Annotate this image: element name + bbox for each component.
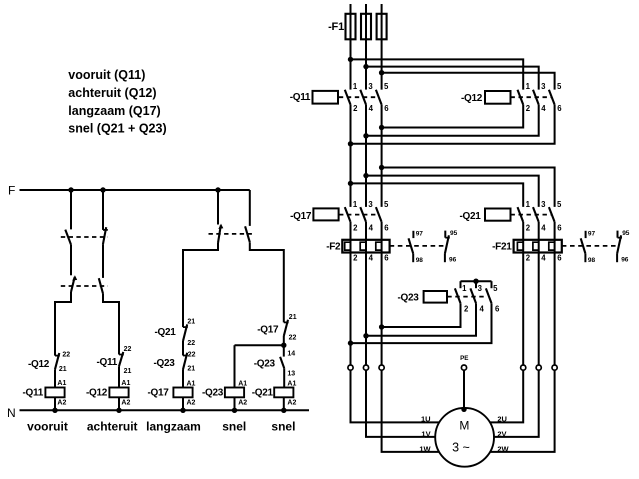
svg-text:3: 3 [541,82,546,91]
coil -Q12 power symbol [485,91,511,104]
wire L2 feed to Q12 pole 3 [366,67,539,90]
svg-text:95: 95 [450,230,458,237]
wire to coil Q21 [283,368,285,387]
svg-text:2: 2 [464,304,469,313]
svg-text:4: 4 [480,304,485,313]
junction Q23 / L1 [348,340,353,345]
junction crossover / L2 [363,133,368,138]
wire phase L1 to motor 1U [351,222,441,423]
svg-text:2: 2 [526,104,531,113]
svg-text:97: 97 [416,231,424,238]
wire coil Q11 to N [54,397,56,410]
svg-text:-Q12: -Q12 [28,359,50,370]
wire Q23 star bridge bus [461,280,492,282]
svg-text:4: 4 [541,104,546,113]
contactor -Q21 main contact 3-4 [533,207,539,222]
svg-text:A2: A2 [121,399,130,406]
wire phase L2 incoming [365,4,367,90]
wire F supply bus [20,189,250,191]
svg-text:21: 21 [187,366,195,373]
wire S2 right pole to snel branch [250,242,284,322]
svg-text:6: 6 [495,304,500,313]
mechanical link S1 row 2 [61,285,108,287]
heater -F2 pole 1 [345,242,351,250]
mechanical link -Q23 [447,296,487,298]
wire Q12 pole 4 output crossover to L2 [366,105,539,136]
svg-text:1W: 1W [419,445,431,454]
terminal L1 [348,365,353,370]
wire S1 left pole middle [70,245,72,276]
wire to coil Q17 [182,370,184,388]
wire S1 right pole middle [102,245,104,278]
svg-text:snel (Q21 + Q23): snel (Q21 + Q23) [68,122,166,136]
svg-text:22: 22 [289,334,297,341]
svg-text:A2: A2 [187,399,196,406]
fuse -F1 pole 1 [346,14,356,40]
contactor -Q17 main contact 5-6 [376,207,382,222]
switch S1 contact left (NO, vooruit) [65,230,71,245]
contact -Q12 NC interlock (21-22) [55,355,60,357]
svg-text:-Q11: -Q11 [290,92,311,103]
svg-text:N: N [7,406,16,420]
contactor -Q11 main contact 1-2 [345,90,351,105]
svg-text:snel: snel [222,420,246,434]
wire Q23 pole 2 output to L3 [382,303,461,327]
fuse -F1 pole 3 [377,14,387,40]
svg-text:2: 2 [526,223,531,232]
svg-text:98: 98 [588,257,596,264]
svg-text:5: 5 [384,82,389,91]
svg-text:-Q21: -Q21 [459,211,481,222]
svg-text:A1: A1 [121,380,130,387]
switch S1 contact left row2 (with actuating arrow) [71,277,75,292]
svg-text:22: 22 [62,351,70,358]
svg-text:-Q17: -Q17 [290,211,312,222]
svg-text:langzaam: langzaam [146,420,201,434]
mechanical link -F21 trip [562,245,616,247]
svg-text:M: M [459,419,469,433]
contact -Q17 NC interlock (21-22) [284,321,289,323]
svg-text:14: 14 [287,350,295,357]
svg-text:6: 6 [384,104,389,113]
mechanical link -Q12 [511,96,552,98]
heater -F21 pole 1 [517,242,523,250]
wire F to S1 right pole [102,190,104,230]
svg-text:-Q23: -Q23 [153,358,175,369]
svg-text:6: 6 [557,254,562,263]
svg-text:PE: PE [460,355,468,362]
svg-text:achteruit (Q12): achteruit (Q12) [68,86,156,100]
overload relay -F2 body [342,240,389,253]
contactor -Q12 main contact 1-2 [518,90,524,105]
wire coil Q23 to N [234,397,236,410]
wire S2 left pole to langzaam branch [183,243,218,327]
svg-text:4: 4 [369,223,374,232]
junction F / vooruit branch [68,187,73,192]
wire phase L2 to motor 1V [366,222,436,437]
svg-text:97: 97 [588,231,596,238]
svg-text:A2: A2 [238,399,247,406]
contactor -Q12 main contact 3-4 [533,90,539,105]
svg-text:vooruit (Q11): vooruit (Q11) [68,68,145,82]
svg-text:2: 2 [526,254,531,263]
junction L2 / Q21 feed [363,173,368,178]
terminal L2 [363,365,368,370]
svg-text:3 ~: 3 ~ [452,441,470,455]
svg-text:5: 5 [493,284,498,293]
switch S2 contact right (NO) [245,226,250,242]
wire junction to coil Q23 [234,345,236,387]
fuse -F1 pole 2 [361,14,371,40]
contactor -Q17 main contact 3-4 [360,207,366,222]
coil -Q12 (achteruit contactor) [109,388,128,398]
svg-text:4: 4 [541,254,546,263]
wire to junction [283,336,285,345]
svg-text:2: 2 [353,104,358,113]
wire coil Q17 to N [182,397,184,410]
wire Q23 pole 6 output to L1 [351,303,492,343]
heater -F2 pole 2 [360,242,366,250]
terminal PE [461,365,466,370]
svg-text:95: 95 [622,230,630,237]
junction Q23 / L2 [363,333,368,338]
svg-text:F: F [8,183,15,197]
svg-text:4: 4 [541,223,546,232]
coil -Q23 power symbol [424,291,447,303]
svg-text:1: 1 [462,284,467,293]
svg-text:-Q23: -Q23 [397,292,419,303]
junction star bus [473,279,478,284]
wire L1 feed to Q21 pole 1 [351,183,524,207]
svg-text:langzaam (Q17): langzaam (Q17) [68,104,160,118]
svg-text:96: 96 [621,257,629,264]
wire coil Q12 to N [118,397,120,410]
svg-text:21: 21 [59,366,67,373]
svg-text:6: 6 [384,254,389,263]
svg-text:-F21: -F21 [492,242,512,253]
wire coil Q21 to N [283,397,285,410]
svg-text:1V: 1V [421,430,430,439]
junction N / Q12 [116,408,121,413]
junction N / Q17 [180,408,185,413]
svg-text:96: 96 [449,257,457,264]
contactor -Q17 main contact 1-2 [345,207,351,222]
svg-text:1U: 1U [421,415,431,424]
svg-text:1: 1 [353,82,358,91]
svg-text:-Q12: -Q12 [86,388,108,399]
heater -F2 pole 3 [376,242,382,250]
coil -Q11 power symbol [313,91,339,104]
terminal 2U [521,365,526,370]
svg-text:-Q12: -Q12 [461,93,483,104]
svg-text:2: 2 [353,254,358,263]
wire F to S1 left pole [70,190,72,229]
svg-text:5: 5 [384,200,389,209]
wire to coil Q12 [118,366,120,387]
wire F corner to S2 right pole [249,190,251,226]
svg-text:-Q23: -Q23 [254,359,276,370]
svg-text:4: 4 [369,104,374,113]
svg-text:-Q11: -Q11 [97,357,118,368]
junction crossover / L1 [348,141,353,146]
svg-text:22: 22 [124,346,132,353]
svg-text:A2: A2 [287,399,296,406]
svg-text:2U: 2U [497,415,507,424]
mechanical link -F2 trip [390,245,444,247]
junction L2 / Q12 feed [363,64,368,69]
svg-text:-Q21: -Q21 [154,327,176,338]
coil -Q11 (vooruit contactor) [45,388,64,398]
junction Q23 / L3 [379,324,384,329]
svg-text:snel: snel [271,420,295,434]
wire Q21 pole 6 to motor 2W [489,222,555,452]
svg-text:6: 6 [557,104,562,113]
svg-text:13: 13 [287,370,295,377]
wire L1 feed to Q12 pole 1 [351,59,524,89]
junction snel branches [281,343,286,348]
junction L3 / Q12 feed [379,70,384,75]
wire L3 feed to Q21 pole 5 [382,168,555,207]
junction L1 / Q21 feed [348,181,353,186]
junction L1 / Q12 feed [348,57,353,62]
switch S1 contact right row2 (NO) [99,278,103,293]
mechanical link -Q11 [339,96,378,98]
svg-text:-F1: -F1 [328,21,344,33]
wire between interlocks [182,341,184,356]
heater -F21 pole 3 [549,242,555,250]
svg-text:21: 21 [187,319,195,326]
svg-text:-Q17: -Q17 [257,324,279,335]
terminal 2V [536,365,541,370]
wire Q12 pole 2 output crossover to L3 [382,105,524,128]
contact -Q21 NC interlock (21-22) [183,326,188,328]
junction F / achteruit branch [100,187,105,192]
terminal 2W [552,365,557,370]
junction N / Q11 [52,408,57,413]
coil -Q21 (snel contactor) [274,388,293,398]
svg-text:1: 1 [353,200,358,209]
svg-text:6: 6 [384,223,389,232]
svg-text:21: 21 [124,368,132,375]
wire Q12 pole 6 output crossover to L1 [351,105,555,144]
contactor -Q21 main contact 1-2 [518,207,524,222]
coil -Q21 power symbol [485,209,511,221]
contactor -Q23 main contact 5-6 [491,281,493,288]
mechanical link S2 [209,233,253,235]
svg-text:-F2: -F2 [326,242,341,253]
wire F to S2 left pole [217,190,219,225]
wire S1 left pole to Q11 branch [55,292,71,356]
wire PE to motor [463,370,465,409]
contact -Q23 NO aux (13-14) [283,345,285,356]
svg-text:A1: A1 [57,380,66,387]
switch S2 contact left (with actuating arrow) [218,225,221,243]
mechanical link -Q17 [339,214,378,216]
heater -F21 pole 2 [533,242,539,250]
wire N return bus [20,409,310,411]
wire L3 feed to Q12 pole 5 [382,73,555,90]
svg-text:2W: 2W [497,445,509,454]
svg-text:5: 5 [557,82,562,91]
svg-text:-Q11: -Q11 [23,388,44,399]
svg-text:2V: 2V [497,430,506,439]
svg-text:-Q17: -Q17 [147,388,169,399]
contactor -Q21 main contact 5-6 [549,207,555,222]
contact -Q11 NC interlock (21-22) [119,354,124,356]
svg-text:5: 5 [557,200,562,209]
switch S1 contact right (NC, achteruit) [103,229,108,231]
wire Q21 pole 4 to motor 2V [494,222,539,437]
junction N / Q21 [281,408,286,413]
junction N / Q23 [232,408,237,413]
junction crossover / L3 [379,125,384,130]
svg-text:1: 1 [526,82,531,91]
wire phase L3 riser Q11-Q17 [381,105,383,207]
svg-text:3: 3 [541,200,546,209]
svg-text:-Q21: -Q21 [252,388,274,399]
svg-text:vooruit: vooruit [27,420,68,434]
contactor -Q23 main contact 3-4 [475,281,477,288]
svg-text:3: 3 [478,284,483,293]
wire L2 feed to Q21 pole 3 [366,176,539,207]
svg-text:22: 22 [188,352,196,359]
contactor -Q23 main contact 1-2 [460,281,462,288]
mechanical link -Q21 [511,214,552,216]
contact -Q23 NC interlock (21-22) [183,355,188,357]
terminal L3 [379,365,384,370]
contactor -Q11 main contact 3-4 [360,90,366,105]
wire to coil Q11 [54,369,56,387]
svg-text:21: 21 [289,314,297,321]
svg-text:4: 4 [369,254,374,263]
svg-text:3: 3 [368,200,373,209]
contact -F21 NC aux (95-96) [617,231,619,238]
mechanical link S1 row 1 [61,236,108,238]
svg-text:1: 1 [526,200,531,209]
wire S1 right pole to Q12 branch [103,294,119,355]
wire phase L3 incoming [381,4,383,90]
motor M1 3-phase body [435,408,494,467]
wire phase L2 riser Q11-Q17 [365,105,367,207]
wire Q21 pole 2 to motor 2U [489,222,523,423]
overload relay -F21 body [514,240,562,253]
svg-text:6: 6 [557,223,562,232]
coil -Q17 (langzaam contactor) [173,388,192,398]
contactor -Q11 main contact 5-6 [376,90,382,105]
junction L3 / Q21 feed [379,165,384,170]
junction PE / motor frame [461,407,466,412]
svg-text:22: 22 [187,340,195,347]
contactor -Q12 main contact 5-6 [549,90,555,105]
wire phase L1 riser Q11-Q17 [350,105,352,207]
svg-text:98: 98 [416,257,424,264]
svg-text:2: 2 [353,223,358,232]
coil -Q23 (ster contactor) [225,388,244,398]
contact -F2 NO aux (97-98) [412,231,414,238]
junction F / langzaam-snel branch [215,187,220,192]
svg-text:3: 3 [368,82,373,91]
wire phase L3 to motor 1W [382,222,441,452]
wire junction to Q23 coil branch [235,344,284,346]
wire phase L1 incoming [350,4,352,90]
svg-text:-Q23: -Q23 [202,388,224,399]
svg-text:A2: A2 [57,399,66,406]
contact -F21 NO aux (97-98) [585,231,587,238]
coil -Q17 power symbol [313,208,338,220]
contact -F2 NC aux (95-96) [444,231,446,238]
wire Q23 pole 4 output to L2 [366,303,476,336]
svg-text:achteruit: achteruit [87,420,138,434]
